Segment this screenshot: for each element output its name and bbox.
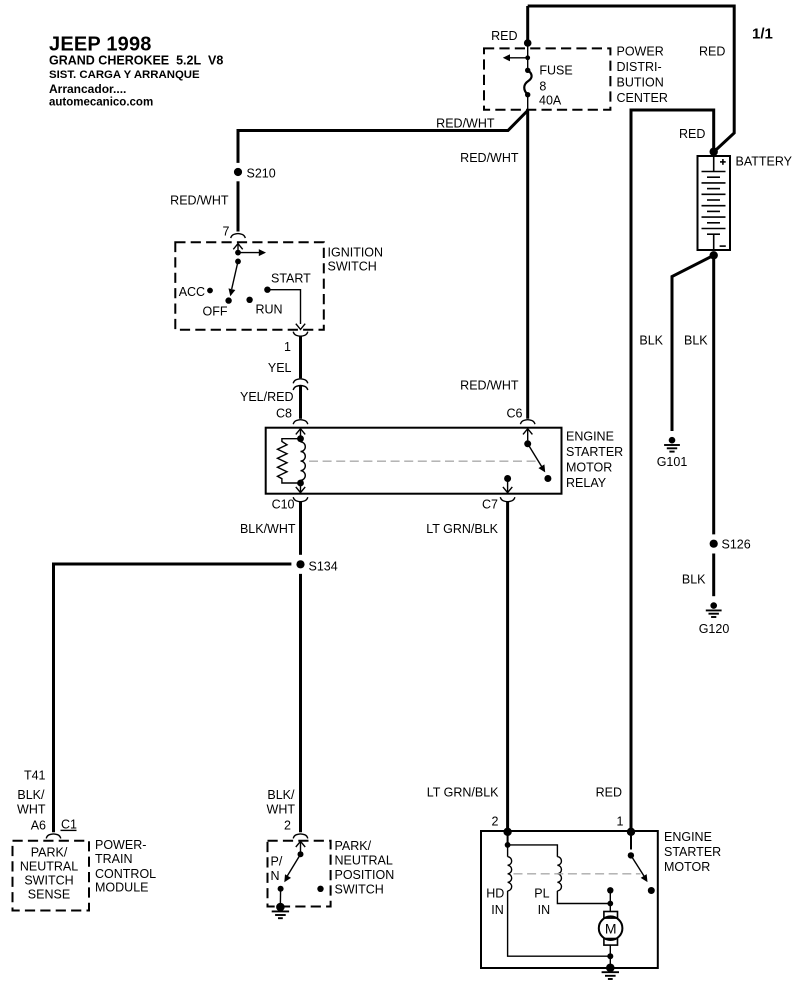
svg-text:SWITCH: SWITCH — [335, 883, 384, 897]
svg-text:RED: RED — [491, 29, 517, 43]
wire BLK/WHT S134 to park/neutral switch — [299, 574, 302, 832]
relay switch wiper — [528, 444, 548, 474]
starter switch wiper — [631, 855, 651, 884]
svg-text:40A: 40A — [539, 94, 562, 108]
starter switch contact — [648, 887, 655, 894]
svg-text:MOTOR: MOTOR — [664, 860, 710, 874]
svg-text:TRAIN: TRAIN — [95, 852, 133, 866]
svg-text:automecanico.com: automecanico.com — [49, 97, 153, 109]
power distribution center box — [484, 48, 610, 109]
starter switch common node — [628, 852, 634, 858]
ground G120 — [706, 602, 722, 617]
relay C6 entry arrow — [523, 429, 532, 441]
node S210 — [234, 168, 242, 176]
connector at ignition pin 7 — [231, 234, 246, 239]
relay coil lower node — [297, 480, 304, 487]
node S134 — [296, 560, 304, 568]
svg-text:RUN: RUN — [256, 303, 283, 317]
ignition common node lower — [235, 259, 241, 265]
svg-text:7: 7 — [223, 225, 230, 239]
starter internal dashed link — [514, 873, 641, 875]
label BLK/ WHT at park/neutral switch — [267, 788, 296, 817]
svg-text:RED: RED — [679, 127, 705, 141]
arrow feed tap in PDC — [503, 54, 530, 61]
svg-text:NEUTRAL: NEUTRAL — [20, 860, 78, 874]
svg-text:BLK: BLK — [684, 334, 708, 348]
park/neutral switch entry arrow — [296, 841, 305, 854]
svg-text:C6: C6 — [507, 407, 523, 421]
svg-text:G120: G120 — [699, 622, 730, 636]
wire BLK/WHT C10 to S134 to park/neutral switch — [299, 502, 302, 555]
svg-text:BATTERY: BATTERY — [736, 155, 793, 169]
starter switch stub — [630, 832, 632, 850]
node at PDC boundary — [524, 39, 532, 47]
wire HD coil to motor return — [508, 891, 611, 956]
svg-text:SWITCH: SWITCH — [328, 260, 377, 274]
relay switch contact — [544, 475, 551, 482]
park/neutral position switch box — [268, 841, 331, 907]
svg-text:C1: C1 — [61, 818, 77, 832]
node starter pin 1 — [627, 828, 635, 836]
svg-text:C10: C10 — [272, 498, 295, 512]
svg-text:RED/WHT: RED/WHT — [170, 194, 229, 208]
starter relay box — [266, 428, 562, 494]
svg-text:IN: IN — [491, 903, 504, 917]
svg-text:8: 8 — [539, 80, 546, 94]
label PARK/ NEUTRAL POSITION SWITCH — [335, 839, 395, 897]
svg-text:RELAY: RELAY — [566, 476, 607, 490]
wire stub down into power distribution center — [526, 6, 529, 46]
svg-text:IGNITION: IGNITION — [328, 246, 384, 260]
connector at relay C10 — [293, 497, 308, 502]
connector at relay C7 — [500, 497, 515, 502]
contact START — [264, 287, 270, 293]
svg-text:DISTRI-: DISTRI- — [617, 60, 662, 74]
svg-text:G101: G101 — [657, 455, 688, 469]
svg-text:SENSE: SENSE — [28, 888, 70, 902]
svg-text:YEL: YEL — [268, 361, 292, 375]
park/neutral switch stub to ground — [279, 889, 281, 903]
park/neutral switch P contact — [278, 886, 284, 892]
label POWER DISTRIBUTION CENTER — [617, 45, 668, 106]
label PARK/ NEUTRAL SWITCH SENSE — [20, 846, 78, 902]
label IGNITION SWITCH — [328, 246, 384, 274]
svg-text:POWER-: POWER- — [95, 838, 146, 852]
wire START to pin 1 — [267, 290, 305, 330]
park/neutral switch common node — [298, 851, 304, 857]
svg-text:YEL/RED: YEL/RED — [240, 390, 294, 404]
relay C7 node — [504, 475, 511, 482]
connector at ignition pin 1 — [293, 332, 308, 337]
label HD IN — [486, 887, 504, 918]
svg-text:ACC: ACC — [179, 285, 205, 299]
svg-text:BLK: BLK — [682, 573, 706, 587]
svg-text:IN: IN — [538, 903, 551, 917]
svg-text:RED/WHT: RED/WHT — [460, 151, 519, 165]
ground at park/neutral switch — [272, 903, 289, 919]
svg-text:BLK/: BLK/ — [17, 788, 45, 802]
svg-text:RED/WHT: RED/WHT — [460, 379, 519, 393]
connector at PCM A6 C1 — [46, 834, 61, 839]
svg-text:1: 1 — [284, 340, 291, 354]
svg-text:S126: S126 — [722, 538, 751, 552]
svg-text:CENTER: CENTER — [617, 91, 668, 105]
label P/ N — [271, 855, 283, 884]
ground G101 — [664, 437, 680, 452]
starter ground stub — [609, 956, 611, 965]
relay coil resistor — [278, 439, 301, 483]
svg-text:RED: RED — [596, 786, 622, 800]
ignition pin 7 entry arrow — [233, 244, 242, 253]
ignition switch box — [175, 242, 323, 329]
wire BLK to S126 — [712, 255, 715, 534]
svg-text:Arrancador....: Arrancador.... — [49, 82, 126, 96]
svg-text:PARK/: PARK/ — [335, 839, 372, 853]
motor feed node — [607, 901, 613, 907]
ignition motion arrow right — [238, 249, 266, 256]
wire YEL/RED to relay C8 — [299, 386, 302, 419]
svg-text:S134: S134 — [309, 560, 338, 574]
wire thin fuse lead lower — [527, 95, 529, 111]
svg-text:1/1: 1/1 — [752, 26, 773, 43]
svg-text:RED/WHT: RED/WHT — [436, 117, 495, 131]
svg-text:WHT: WHT — [267, 803, 296, 817]
powertrain control module box — [13, 841, 90, 911]
wire BLK to G101 — [672, 255, 714, 431]
engine starter motor box — [481, 831, 658, 968]
svg-text:SWITCH: SWITCH — [24, 874, 73, 888]
node S126 — [710, 540, 718, 548]
svg-text:2: 2 — [492, 815, 499, 829]
svg-text:HD: HD — [486, 887, 504, 901]
svg-text:A6: A6 — [31, 819, 46, 833]
ground at starter motor — [602, 964, 619, 980]
svg-text:N: N — [271, 869, 280, 883]
svg-text:M: M — [605, 920, 617, 936]
wire YEL from ignition — [299, 337, 302, 379]
ignition common node upper — [235, 250, 241, 256]
svg-text:OFF: OFF — [203, 304, 228, 318]
starter PL IN coil — [508, 845, 611, 904]
label BLK/ WHT at PCM — [17, 788, 46, 817]
relay C10 exit arrow — [296, 483, 305, 493]
wire top feed from fuse to battery side — [528, 6, 735, 152]
relay coil upper node — [297, 435, 304, 442]
svg-text:SIST. CARGA Y ARRANQUE: SIST. CARGA Y ARRANQUE — [49, 69, 200, 81]
svg-text:MODULE: MODULE — [95, 881, 148, 895]
svg-text:C7: C7 — [482, 498, 498, 512]
contact OFF — [225, 297, 231, 303]
wire RED/WHT S210 to ignition pin 7 — [237, 181, 240, 231]
starter coil feed node — [505, 832, 511, 848]
svg-text:BLK: BLK — [639, 334, 663, 348]
wire thin fuse lead upper — [527, 44, 529, 70]
relay coil — [301, 442, 306, 480]
svg-text:BLK/: BLK/ — [267, 788, 295, 802]
park/neutral switch wiper — [281, 854, 300, 884]
svg-text:LT GRN/BLK: LT GRN/BLK — [427, 786, 499, 800]
node starter pin 2 — [503, 828, 511, 836]
svg-text:PARK/: PARK/ — [31, 846, 68, 860]
contact ACC — [207, 288, 213, 294]
connector at park/neutral switch pin 2 — [293, 834, 308, 839]
connector at relay C8 — [293, 420, 308, 425]
svg-text:JEEP 1998: JEEP 1998 — [49, 34, 152, 56]
wire RED branch to battery positive — [631, 110, 714, 832]
wire LT GRN/BLK C7 to starter pin 2 — [506, 502, 509, 832]
svg-text:BUTION: BUTION — [617, 76, 664, 90]
motor return node — [607, 953, 613, 959]
svg-text:P/: P/ — [271, 855, 283, 869]
svg-text:STARTER: STARTER — [664, 845, 721, 859]
inline connector YEL to YEL/RED — [293, 379, 308, 390]
label PL IN — [534, 887, 550, 918]
svg-text:RED: RED — [699, 45, 725, 59]
svg-text:T41: T41 — [24, 769, 46, 783]
label FUSE 8 40A — [539, 64, 573, 108]
svg-text:LT GRN/BLK: LT GRN/BLK — [426, 522, 498, 536]
svg-text:PL: PL — [534, 887, 549, 901]
label C1 underlined — [61, 818, 78, 832]
svg-text:MOTOR: MOTOR — [566, 461, 612, 475]
svg-text:START: START — [271, 272, 311, 286]
connector at relay C6 — [520, 420, 535, 425]
svg-text:1: 1 — [617, 815, 624, 829]
label ENGINE STARTER MOTOR RELAY — [566, 430, 623, 491]
svg-text:FUSE: FUSE — [539, 64, 572, 78]
fuse 8 40A — [524, 68, 531, 98]
wire main feed down to relay C6 — [526, 111, 529, 419]
svg-text:2: 2 — [284, 819, 291, 833]
park/neutral switch right contact — [317, 886, 323, 892]
svg-text:POWER: POWER — [617, 45, 664, 59]
node battery positive — [710, 148, 718, 156]
svg-text:CONTROL: CONTROL — [95, 867, 156, 881]
battery — [698, 156, 731, 250]
svg-text:POSITION: POSITION — [335, 868, 395, 882]
ignition wiper toward OFF — [227, 261, 238, 297]
label POWER- TRAIN CONTROL MODULE — [95, 838, 156, 895]
starter HD IN coil — [508, 845, 512, 891]
relay internal dashed link — [309, 460, 536, 462]
svg-text:GRAND CHEROKEE 5.2L V8: GRAND CHEROKEE 5.2L V8 — [49, 54, 223, 68]
svg-text:C8: C8 — [276, 407, 292, 421]
wire RED/WHT from fuse to S210 branch — [238, 111, 528, 163]
motor top node — [607, 887, 613, 893]
relay C7 exit arrow — [503, 479, 512, 493]
svg-text:ENGINE: ENGINE — [566, 430, 614, 444]
svg-text:NEUTRAL: NEUTRAL — [335, 854, 393, 868]
relay switch common node — [524, 440, 531, 447]
contact RUN — [246, 297, 252, 303]
wire S134 branch to PCM — [54, 564, 292, 832]
label ENGINE STARTER MOTOR — [664, 830, 721, 874]
svg-text:WHT: WHT — [17, 803, 46, 817]
wire BLK S126 to G120 — [712, 554, 715, 597]
svg-text:S210: S210 — [247, 167, 276, 181]
relay C8 entry arrow — [296, 429, 305, 439]
svg-text:STARTER: STARTER — [566, 445, 623, 459]
node battery negative — [710, 251, 718, 259]
svg-text:BLK/WHT: BLK/WHT — [240, 522, 296, 536]
svg-text:ENGINE: ENGINE — [664, 830, 712, 844]
motor M1 — [599, 890, 623, 956]
